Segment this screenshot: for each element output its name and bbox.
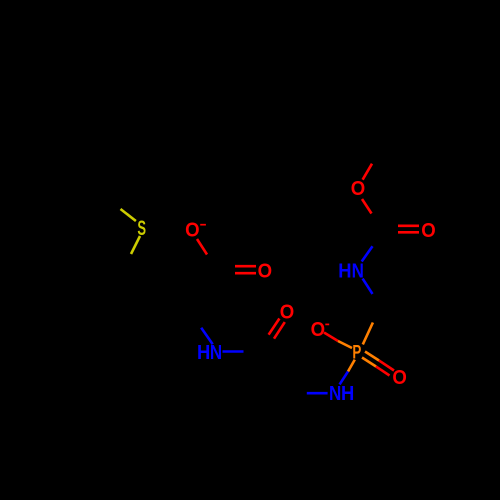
svg-text:O: O [280,301,294,324]
svg-text:N: N [352,259,364,282]
svg-text:P: P [352,341,361,363]
svg-text:O: O [351,177,365,200]
svg-text:H: H [338,261,351,283]
svg-text:O: O [311,318,325,341]
svg-text:H: H [197,342,210,364]
svg-text:N: N [210,341,222,364]
svg-text:H: H [341,383,354,405]
svg-text:S: S [137,216,146,240]
svg-text:O: O [185,219,199,242]
svg-text:O: O [258,260,272,283]
svg-text:O: O [421,219,435,242]
svg-text:O: O [392,366,406,389]
svg-text:N: N [329,381,341,404]
